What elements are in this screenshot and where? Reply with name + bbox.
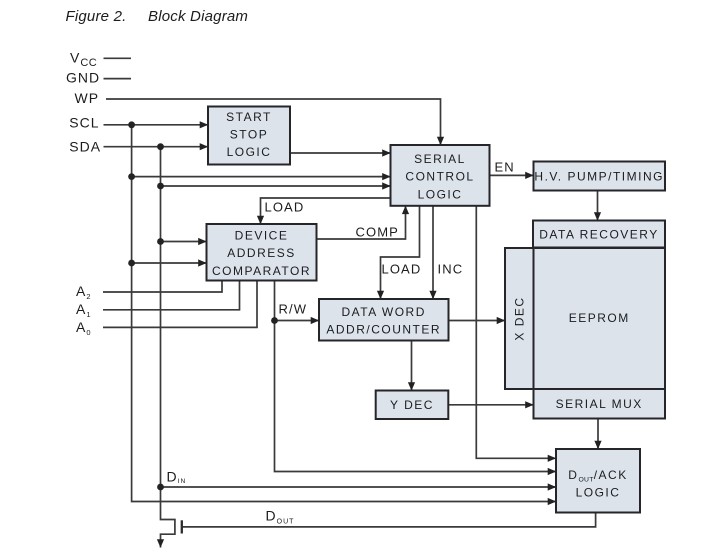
- svg-text:LOGIC: LOGIC: [227, 145, 272, 159]
- wire SCL to START STOP LOGIC: [104, 124, 209, 126]
- svg-text:VCC: VCC: [70, 50, 97, 69]
- svg-text:SDA: SDA: [69, 138, 101, 154]
- svg-text:A0: A0: [76, 319, 92, 337]
- wire SCL vertical down then right into DOUT/ACK LOGIC: [132, 125, 556, 502]
- wire DATA WORD ADDR/COUNTER to Y DEC: [411, 341, 413, 391]
- svg-text:LOAD: LOAD: [382, 262, 422, 277]
- wire SCL branch to DEVICE ADDRESS COMPARATOR: [132, 262, 207, 264]
- svg-text:DATA WORD: DATA WORD: [342, 305, 426, 319]
- wire SCL branch to SERIAL CONTROL LOGIC: [132, 176, 391, 178]
- svg-text:R/W: R/W: [279, 302, 308, 317]
- junction dot SCL branch to comparator: [128, 260, 135, 267]
- svg-text:DIN: DIN: [167, 469, 187, 486]
- block Y DEC: [376, 391, 449, 420]
- svg-text:WP: WP: [75, 90, 100, 106]
- wire SDA branch to SERIAL CONTROL LOGIC: [161, 185, 391, 187]
- wire R/W from DEVICE ADDRESS COMPARATOR down to DOUT/ACK LOGIC: [275, 281, 557, 472]
- block SERIAL MUX: [534, 389, 666, 419]
- block DEVICE ADDRESS COMPARATOR: [207, 224, 317, 281]
- block X DEC: [505, 248, 534, 389]
- wire LOAD from SERIAL CONTROL LOGIC to DEVICE ADDRESS COMPARATOR: [261, 198, 391, 224]
- block SERIAL CONTROL LOGIC: [391, 145, 490, 206]
- svg-text:H.V. PUMP/TIMING: H.V. PUMP/TIMING: [534, 169, 664, 183]
- svg-text:STOP: STOP: [230, 128, 268, 142]
- svg-text:EN: EN: [495, 159, 515, 174]
- wire H.V. PUMP/TIMING to DATA RECOVERY: [597, 191, 599, 221]
- wire R/W branch to DATA WORD ADDR/COUNTER: [275, 320, 320, 322]
- junction dot DIN node: [157, 484, 164, 491]
- svg-text:ADDRESS: ADDRESS: [227, 246, 296, 260]
- svg-text:DOUT: DOUT: [266, 507, 295, 525]
- wire DOUT from DOUT/ACK LOGIC to output transistor gate: [182, 512, 596, 527]
- junction dot SDA at pin: [157, 143, 164, 150]
- svg-text:START: START: [226, 110, 272, 124]
- block DATA RECOVERY: [533, 221, 665, 248]
- svg-text:COMP: COMP: [356, 225, 399, 240]
- svg-text:Block Diagram: Block Diagram: [148, 8, 248, 25]
- pin GND stub wire: [104, 78, 132, 80]
- svg-text:SCL: SCL: [69, 115, 99, 131]
- wire A2 to DEVICE ADDRESS COMPARATOR bottom: [103, 281, 222, 293]
- wire A0 to DEVICE ADDRESS COMPARATOR bottom: [103, 281, 257, 328]
- junction dot R/W node: [271, 317, 278, 324]
- junction dot SDA branch to serial: [157, 183, 164, 190]
- svg-text:DOUT/ACK: DOUT/ACK: [568, 468, 627, 484]
- svg-text:A2: A2: [76, 283, 92, 301]
- wire COMP from DEVICE ADDRESS COMPARATOR to SERIAL CONTROL LOGIC: [317, 206, 406, 239]
- junction dot SDA branch to comparator: [157, 238, 164, 245]
- svg-text:DEVICE: DEVICE: [235, 229, 289, 243]
- wire EN from SERIAL CONTROL LOGIC to H.V. PUMP/TIMING: [490, 174, 534, 176]
- wire LOAD from SERIAL CONTROL LOGIC to DATA WORD ADDR/COUNTER: [381, 206, 420, 299]
- wire DATA WORD ADDR/COUNTER to X DEC: [449, 320, 506, 322]
- svg-text:ADDR/COUNTER: ADDR/COUNTER: [326, 323, 441, 337]
- svg-text:COMPARATOR: COMPARATOR: [212, 264, 311, 278]
- block DATA WORD ADDR/COUNTER: [319, 299, 449, 341]
- block START STOP LOGIC: [208, 107, 290, 165]
- block H.V. PUMP/TIMING: [534, 162, 666, 191]
- svg-text:Y DEC: Y DEC: [390, 398, 434, 412]
- wire INC from SERIAL CONTROL LOGIC to DATA WORD ADDR/COUNTER: [432, 206, 434, 299]
- svg-text:EEPROM: EEPROM: [569, 311, 630, 325]
- wire Y DEC to SERIAL MUX: [448, 404, 533, 406]
- wire DIN to DOUT/ACK LOGIC: [161, 486, 557, 488]
- junction dot SCL at pin: [128, 121, 135, 128]
- svg-text:A1: A1: [76, 301, 92, 319]
- svg-text:DATA RECOVERY: DATA RECOVERY: [539, 227, 659, 241]
- svg-text:SERIAL MUX: SERIAL MUX: [556, 397, 643, 411]
- wire WP to SERIAL CONTROL LOGIC top: [106, 99, 441, 145]
- svg-text:INC: INC: [438, 262, 464, 277]
- wire SDA branch to DEVICE ADDRESS COMPARATOR: [161, 241, 207, 243]
- svg-text:CONTROL: CONTROL: [405, 170, 474, 184]
- wire SERIAL MUX to DOUT/ACK LOGIC: [597, 419, 599, 450]
- wire A1 to DEVICE ADDRESS COMPARATOR bottom: [103, 281, 240, 310]
- wire START STOP LOGIC output to SERIAL CONTROL LOGIC: [290, 152, 391, 154]
- transistor gate plate: [181, 520, 183, 533]
- svg-text:SERIAL: SERIAL: [414, 152, 466, 166]
- svg-text:LOAD: LOAD: [265, 200, 305, 215]
- pin VCC stub wire: [104, 57, 132, 59]
- wire SDA to START STOP LOGIC: [104, 146, 209, 148]
- svg-text:X DEC: X DEC: [512, 296, 526, 340]
- svg-text:LOGIC: LOGIC: [576, 486, 621, 500]
- wire SERIAL CONTROL LOGIC down to DOUT/ACK LOGIC: [476, 206, 556, 458]
- svg-text:Figure 2.: Figure 2.: [66, 8, 127, 25]
- junction dot SCL branch to serial: [128, 173, 135, 180]
- block EEPROM: [534, 248, 666, 389]
- svg-text:GND: GND: [66, 69, 100, 85]
- svg-text:LOGIC: LOGIC: [418, 187, 463, 201]
- block DOUT/ACK LOGIC: [556, 449, 640, 513]
- wire SDA vertical down to output transistor drain: [161, 147, 175, 548]
